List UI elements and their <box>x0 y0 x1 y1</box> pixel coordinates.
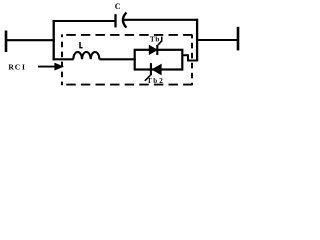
terminal left <box>5 31 8 53</box>
wire top left segment <box>53 20 115 22</box>
svg-text:T: T <box>150 35 155 43</box>
svg-text:T: T <box>147 77 152 85</box>
thyristor Tb2 cathode bar <box>150 63 152 75</box>
svg-text:I: I <box>22 63 25 72</box>
thyristor Tb1 gate <box>158 41 162 46</box>
thyristor Tb1 cathode bar <box>156 45 158 55</box>
wire block output lower <box>187 60 198 62</box>
svg-text:C: C <box>115 2 121 11</box>
RCI dashed box top edge <box>61 34 192 36</box>
wire block output upper <box>182 54 188 56</box>
inductor L coil <box>73 52 99 59</box>
thyristor Tb1 anode triangle <box>149 45 157 54</box>
svg-text:b: b <box>153 77 157 85</box>
wire left terminal <box>6 39 55 41</box>
thyristor Tb2 anode triangle <box>152 64 161 74</box>
wire coil to thyristor block <box>99 58 135 60</box>
terminal right <box>237 27 240 51</box>
thyristor block loop rectangle <box>135 50 183 70</box>
svg-text:R: R <box>8 63 14 72</box>
svg-text:b: b <box>155 35 159 43</box>
label L <box>80 42 83 48</box>
RCI dashed box left edge <box>61 34 63 85</box>
RCI dashed box bottom edge <box>61 84 193 86</box>
RCI arrow head <box>55 63 63 70</box>
capacitor C curved plate <box>123 13 127 28</box>
RCI arrow line <box>38 66 57 68</box>
wire left riser <box>53 20 55 61</box>
wire right riser <box>196 19 198 62</box>
capacitor C left plate <box>114 14 116 27</box>
wire top right segment <box>123 19 198 21</box>
wire right terminal <box>196 39 238 41</box>
thyristor Tb2 gate <box>145 75 151 81</box>
svg-text:2: 2 <box>159 77 163 85</box>
RCI dashed box right edge <box>191 35 193 85</box>
wire block output jog <box>187 54 189 61</box>
svg-text:C: C <box>15 63 20 72</box>
wire inductor input <box>53 58 74 60</box>
